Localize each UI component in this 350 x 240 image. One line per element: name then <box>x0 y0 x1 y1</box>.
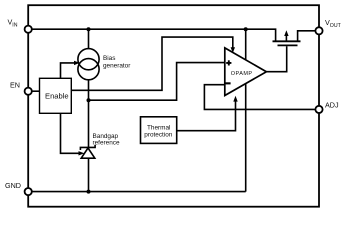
wire: GND rail <box>28 191 246 193</box>
arrowhead into opamp top <box>231 47 235 53</box>
wire: opamp output to PMOS gate <box>266 46 286 71</box>
pin ADJ <box>315 106 322 113</box>
pin VOUT <box>315 27 322 34</box>
svg-text:IN: IN <box>12 22 17 28</box>
wire: VIN rail from pin to PMOS source <box>28 29 275 41</box>
pin GND <box>25 188 32 195</box>
pin VIN <box>25 26 32 33</box>
svg-text:generator: generator <box>103 62 131 69</box>
node: VIN / opamp supply junction <box>244 27 248 31</box>
zener cathode bar with ticks <box>80 145 95 150</box>
wire: Enable to bias generator (arrow) <box>61 63 76 78</box>
wire: opamp supply/ground vertical (passes behind opamp) <box>245 29 247 191</box>
drain wire to VOUT <box>298 31 319 42</box>
wire: bias generator top drop <box>88 29 90 48</box>
wire: Enable to bandgap (arrow) <box>61 113 80 153</box>
svg-text:OUT: OUT <box>330 23 342 29</box>
svg-text:ADJ: ADJ <box>325 100 339 109</box>
svg-text:GND: GND <box>5 181 21 190</box>
gate bar <box>278 44 298 46</box>
opamp plus input marker <box>226 62 231 64</box>
svg-text:Enable: Enable <box>45 92 69 101</box>
outer IC boundary box <box>28 5 319 207</box>
wire: EN pin to Enable block <box>28 90 39 92</box>
svg-text:reference: reference <box>93 140 120 147</box>
node: bandgap reference tap junction <box>87 98 91 102</box>
bias generator: current source circles U2 <box>78 49 99 70</box>
block: Enable <box>40 78 72 113</box>
pin EN <box>25 88 32 95</box>
svg-text:EN: EN <box>10 81 20 90</box>
svg-text:OPAMP: OPAMP <box>231 71 253 77</box>
block: Thermal protection <box>141 117 177 144</box>
node: bandgap / GND rail junction <box>87 190 91 194</box>
source arrow (bulk) pointing up <box>285 33 287 41</box>
svg-text:protection: protection <box>144 131 173 138</box>
node: VIN / bias junction <box>87 27 91 31</box>
zener diode D1 (bandgap reference) <box>81 148 95 158</box>
wire: ADJ feedback to opamp inverting input <box>204 85 315 110</box>
opamp minus input marker <box>225 82 230 84</box>
wire: reference to opamp non-inverting input <box>89 63 225 101</box>
wire: Enable output to opamp enable arrow <box>71 37 233 90</box>
wire: thermal protection to opamp (arrow up) <box>177 100 236 131</box>
wire: bandgap vertical from bias generator to GND rail <box>88 80 90 192</box>
op-amp U1 triangle <box>225 48 267 96</box>
channel bar <box>273 40 301 42</box>
svg-text:Bias: Bias <box>103 55 115 62</box>
